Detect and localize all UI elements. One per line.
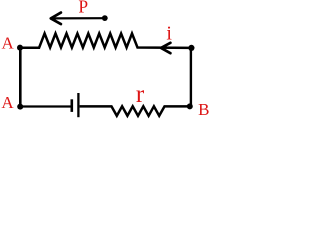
battery cell: long plate <box>77 93 79 117</box>
arrow P (pointing left) <box>51 13 105 25</box>
left wire <box>19 48 22 107</box>
node A top dot <box>17 45 23 51</box>
bottom wire left segment (A to battery) <box>20 105 70 107</box>
svg-text:i: i <box>166 23 172 45</box>
bottom wire with resistor r zigzag <box>80 106 190 116</box>
svg-text:r: r <box>136 81 145 108</box>
node A bottom dot <box>17 104 23 110</box>
svg-text:P: P <box>78 0 88 16</box>
svg-text:A: A <box>1 34 14 53</box>
svg-text:A: A <box>1 93 14 112</box>
right wire <box>190 48 192 107</box>
svg-text:B: B <box>198 100 209 119</box>
top wire with resistor P zigzag <box>20 34 191 48</box>
current arrow i on top wire (pointing left) <box>161 43 170 53</box>
battery cell: short plate <box>71 99 74 112</box>
node B dot <box>187 103 193 109</box>
dot at right end of P arrow <box>102 15 108 21</box>
node top-right dot <box>188 45 194 51</box>
